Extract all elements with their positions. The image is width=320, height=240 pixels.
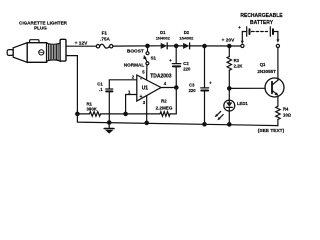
wire D2 to +20V terminal (190, 45, 241, 47)
op-amp U1 TDA2003 (137, 75, 161, 101)
label CIGARETTE LIGHTER PLUG (19, 21, 68, 31)
resistor R3 (227, 46, 231, 88)
svg-text:PLUG: PLUG (34, 26, 47, 31)
wire switch to pin 5 (146, 65, 148, 80)
wire D1 to D2 (167, 45, 183, 47)
wire pin 4 output (161, 87, 176, 89)
terminal +20V (241, 44, 244, 47)
label R3 2.2K (234, 58, 243, 69)
node pin1/R1/R2 junction (124, 112, 127, 115)
svg-text:BOOST: BOOST (127, 49, 144, 54)
wire pin 1 down to feedback line (126, 95, 137, 114)
svg-text:S1: S1 (151, 56, 157, 61)
svg-text:+: + (209, 81, 212, 86)
node ground symbol junction (108, 121, 111, 124)
node C3 junction (203, 44, 206, 47)
wire LED node to Q1 base (229, 87, 265, 89)
svg-text:D2: D2 (184, 30, 190, 35)
svg-text:(SEE TEXT): (SEE TEXT) (258, 128, 285, 134)
feedback line with R1 R2 (77, 113, 89, 115)
node pin3/rail (145, 121, 148, 124)
capacitor C3 (201, 46, 209, 124)
LED1 (215, 88, 235, 124)
svg-text:.1: .1 (99, 87, 103, 92)
wire R2 up to output node (170, 89, 176, 114)
wire R1 to R2 (101, 113, 161, 115)
node: BOOST junction (146, 44, 149, 47)
node LED/rail (228, 123, 231, 126)
capacitor C2 (172, 46, 180, 88)
svg-text:R3: R3 (234, 58, 240, 63)
svg-text:390K: 390K (87, 107, 98, 112)
node R3/LED/base (228, 87, 231, 90)
battery B1 (241, 27, 280, 48)
resistor R2 (160, 112, 170, 117)
svg-text:TDA2003: TDA2003 (150, 74, 172, 80)
diode D1 (161, 43, 168, 49)
wire pin 2 to C1 (109, 80, 137, 88)
wire C1 to ground rail (108, 92, 110, 122)
svg-text:R4: R4 (283, 107, 289, 112)
ground rail (66, 56, 278, 126)
node plug return / feedback (76, 112, 79, 115)
node C3/rail (203, 123, 206, 126)
svg-text:.75A: .75A (100, 37, 110, 42)
svg-text:BATTERY: BATTERY (250, 20, 274, 26)
label F1 .75A (100, 30, 110, 41)
label Q1 2N3055T (257, 62, 276, 74)
label D2 1N4002 (179, 30, 194, 40)
svg-text:LED1: LED1 (237, 101, 248, 106)
label R4 10ohm (283, 107, 292, 118)
node R3 junction (228, 44, 231, 47)
svg-text:+ 20V: + 20V (222, 37, 235, 43)
resistor R1 (90, 112, 101, 117)
svg-text:+: + (139, 94, 142, 100)
label R1 390K (86, 101, 97, 111)
resistor R4 (276, 106, 280, 125)
switch S1 (143, 46, 149, 65)
svg-text:+ 12V: + 12V (75, 41, 88, 47)
svg-text:2.2K: 2.2K (234, 63, 243, 68)
wire plug top to fuse (66, 45, 96, 47)
svg-text:+: + (238, 25, 241, 30)
label D1 1N4002 (156, 30, 171, 40)
svg-text:R1: R1 (86, 101, 92, 106)
ground (104, 123, 114, 134)
label C2 220 + (169, 58, 191, 71)
labels U1 pins (128, 69, 172, 105)
svg-text:-: - (140, 76, 142, 82)
diode D2 (183, 43, 190, 49)
svg-text:F1: F1 (102, 30, 108, 35)
label C1 .1 (97, 82, 103, 92)
svg-text:R2: R2 (161, 99, 167, 104)
svg-text:220: 220 (183, 66, 191, 71)
svg-text:2.2MEG: 2.2MEG (156, 105, 173, 110)
node D1/D2 junction (175, 44, 178, 47)
svg-text:+: + (169, 58, 172, 63)
svg-text:1N4002: 1N4002 (179, 36, 194, 41)
node output/C2/R2 (175, 86, 178, 89)
labels BOOST NORMAL S1 (124, 49, 157, 68)
fuse F1 (96, 44, 113, 48)
svg-text:D1: D1 (160, 30, 166, 35)
transistor Q1 (265, 48, 284, 107)
capacitor C1 (106, 89, 113, 91)
svg-text:220: 220 (189, 88, 197, 93)
label RECHARGEABLE BATTERY (238, 13, 283, 30)
cigarette lighter plug (7, 39, 66, 62)
svg-text:NORMAL: NORMAL (124, 62, 145, 67)
svg-text:U1: U1 (142, 85, 149, 91)
svg-text:Q1: Q1 (260, 62, 266, 67)
svg-text:RECHARGEABLE: RECHARGEABLE (240, 13, 283, 19)
wire pin 3 to ground rail (146, 96, 148, 123)
svg-text:1N4002: 1N4002 (156, 36, 171, 41)
label R2 2.2MEG (156, 99, 173, 111)
svg-text:2N3055T: 2N3055T (257, 69, 276, 74)
svg-text:10Ω: 10Ω (283, 113, 292, 118)
wire fuse to switch node (113, 45, 161, 47)
label C3 220 + (189, 81, 212, 93)
